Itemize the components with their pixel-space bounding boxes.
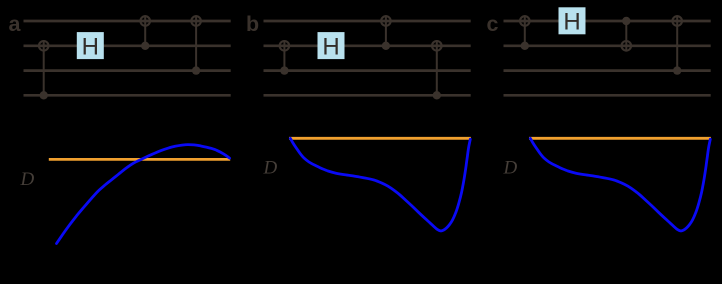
- svg-text:c: c: [487, 12, 499, 36]
- svg-text:a: a: [9, 12, 22, 36]
- svg-text:b: b: [246, 12, 259, 36]
- svg-text:H: H: [322, 33, 339, 60]
- svg-text:D: D: [20, 169, 35, 190]
- svg-text:H: H: [82, 33, 99, 60]
- svg-text:D: D: [503, 158, 518, 179]
- svg-text:H: H: [563, 9, 580, 36]
- svg-text:D: D: [263, 158, 278, 179]
